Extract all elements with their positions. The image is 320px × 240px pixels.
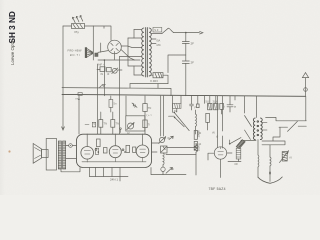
svg-text:tN: tN — [212, 131, 215, 135]
svg-text:2F: 2F — [191, 61, 195, 65]
svg-text:Ω5i: Ω5i — [157, 43, 161, 47]
svg-text:FRĐ·HĐW: FRĐ·HĐW — [68, 49, 83, 53]
svg-text:( + >: ( + > — [147, 113, 153, 117]
svg-text:Pty: Pty — [75, 30, 80, 34]
svg-text:SH 3 ND: SH 3 ND — [8, 11, 17, 43]
svg-text:V·DFI: V·DFI — [150, 79, 158, 83]
svg-text:5LI: 5LI — [206, 100, 210, 104]
svg-text:TN: TN — [116, 122, 120, 126]
svg-text:Ωt: Ωt — [171, 167, 174, 171]
svg-text:AtF ·t: AtF ·t — [98, 63, 105, 67]
svg-text:3LN: 3LN — [213, 100, 218, 104]
svg-text:24N 1: 24N 1 — [110, 177, 118, 181]
svg-text:S·F: S·F — [154, 28, 159, 32]
svg-text:i5A: i5A — [157, 38, 161, 42]
svg-text:5F: 5F — [127, 132, 130, 136]
svg-text:t(: t( — [94, 122, 96, 126]
svg-text:2F: 2F — [191, 42, 195, 46]
svg-text:tΩ: tΩ — [199, 131, 202, 135]
svg-text:TN: TN — [148, 106, 152, 110]
svg-text:ĐN·TI: ĐN·TI — [70, 53, 80, 57]
svg-text:tW: tW — [235, 162, 239, 166]
svg-text:7BF 5AZ4: 7BF 5AZ4 — [209, 187, 226, 191]
svg-text:Loewe Opta: Loewe Opta — [10, 40, 15, 65]
svg-text:tΩ: tΩ — [199, 142, 202, 146]
svg-text:tN: tN — [101, 72, 104, 76]
svg-text:tV: tV — [290, 156, 293, 160]
svg-text:TN: TN — [104, 122, 108, 126]
